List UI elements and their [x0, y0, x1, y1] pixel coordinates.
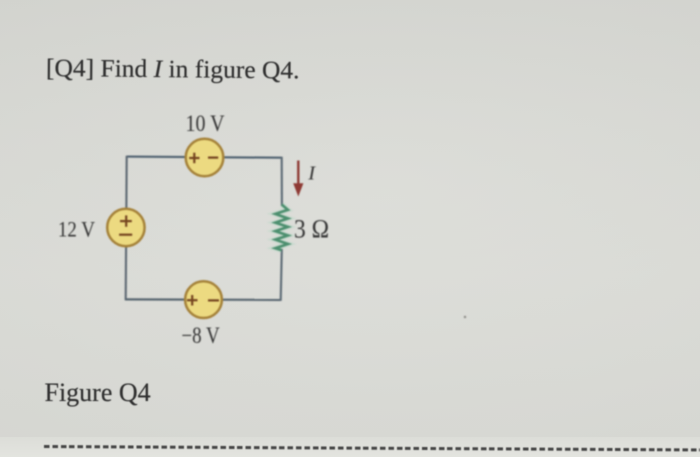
- svg-text:3 Ω: 3 Ω: [294, 215, 329, 243]
- current arrow I: [293, 161, 303, 197]
- wire bottom segment: [125, 298, 281, 301]
- svg-text:10 V: 10 V: [185, 110, 224, 136]
- label -8 V: [181, 322, 220, 348]
- wire top segment: [127, 157, 282, 158]
- resistor 3 ohm: [275, 205, 288, 251]
- label 10 V: [185, 110, 224, 136]
- dashed separator line: [44, 445, 700, 451]
- title text: [46, 55, 300, 83]
- voltage source -8 V (bottom): [185, 281, 222, 318]
- lighter strip below separator: [0, 437, 700, 457]
- svg-text:I: I: [307, 163, 316, 185]
- voltage source 12 V (left): [107, 209, 144, 246]
- wire left segment: [126, 156, 127, 300]
- voltage source 10 V (top): [186, 139, 224, 177]
- label 3 ohm: [294, 215, 329, 243]
- label I: [307, 163, 316, 185]
- figure caption: [45, 380, 151, 406]
- wire right lower segment: [281, 249, 282, 301]
- label 12 V: [58, 217, 95, 242]
- svg-text:12 V: 12 V: [58, 217, 95, 242]
- svg-text:−8 V: −8 V: [181, 322, 220, 348]
- wire right upper segment: [281, 157, 283, 206]
- speck: [464, 316, 466, 318]
